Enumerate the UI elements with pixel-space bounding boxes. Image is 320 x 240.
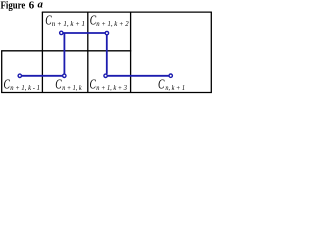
wire blue vertical V1: [63, 33, 65, 74]
node D open circle upper right end: [105, 31, 108, 34]
wire blue upper segment: [63, 32, 105, 34]
wire middle border: [1, 50, 131, 52]
wire blue lower-left segment: [22, 75, 63, 77]
node A open circle left end: [18, 74, 21, 77]
node E open circle lower-right left end: [104, 74, 107, 77]
svg-text:Cn + 1, k: Cn + 1, k: [55, 78, 82, 93]
svg-text:Cn + 1, k + 2: Cn + 1, k + 2: [90, 14, 129, 29]
wire bottom border: [1, 92, 212, 94]
svg-text:Figure: Figure: [1, 0, 26, 11]
svg-text:Cn + 1, k - 1: Cn + 1, k - 1: [4, 78, 40, 93]
wire left border: [1, 51, 3, 93]
svg-text:Cn, k + 1: Cn, k + 1: [158, 78, 185, 93]
wire top border: [42, 11, 212, 13]
svg-text:Cn + 1, k + 3: Cn + 1, k + 3: [90, 78, 128, 93]
wire divider x=88: [87, 12, 89, 92]
node B open circle lower-left right end: [63, 74, 66, 77]
wire divider x=131: [130, 12, 132, 92]
node F open circle right end: [169, 74, 172, 77]
wire divider x=42: [41, 12, 43, 92]
svg-text:6: 6: [29, 0, 35, 11]
wire blue vertical V2: [106, 35, 108, 74]
svg-text:a: a: [38, 0, 43, 10]
svg-text:Cn + 1, k + 1: Cn + 1, k + 1: [45, 14, 85, 29]
node C open circle upper left end: [60, 31, 63, 34]
wire right border: [210, 12, 212, 92]
wire blue lower-right segment: [107, 75, 168, 77]
